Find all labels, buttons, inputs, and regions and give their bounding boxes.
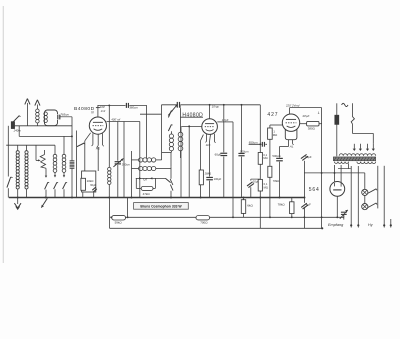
svg-text:60μF: 60μF	[90, 183, 96, 187]
svg-text:40ʹμF: 40ʹμF	[302, 114, 309, 118]
svg-text:765cm: 765cm	[60, 113, 69, 117]
svg-text:10ʹμF: 10ʹμF	[222, 118, 229, 122]
svg-text:10kΩ: 10kΩ	[87, 179, 95, 183]
svg-text:MΩ: MΩ	[264, 185, 268, 189]
svg-text:220ʹ 2Vmd: 220ʹ 2Vmd	[285, 103, 300, 107]
svg-text:AL: AL	[289, 144, 294, 148]
svg-text:Rг: Rг	[96, 146, 100, 150]
svg-text:350cm: 350cm	[122, 162, 131, 166]
svg-text:100ʹ: 100ʹ	[100, 105, 105, 109]
svg-text:L: L	[318, 111, 320, 115]
svg-text:50μF: 50μF	[305, 155, 312, 159]
svg-text:78kΩ: 78kΩ	[278, 203, 286, 207]
svg-text:0,1: 0,1	[263, 153, 267, 157]
svg-text:650cm: 650cm	[249, 140, 258, 144]
svg-text:100cm: 100cm	[240, 150, 249, 154]
svg-text:Bruns Cosmophon 333 W: Bruns Cosmophon 333 W	[140, 204, 182, 208]
svg-text:400ʹ mf: 400ʹ mf	[111, 117, 120, 121]
svg-text:H4080D: H4080D	[182, 112, 203, 118]
svg-text:380cm: 380cm	[129, 105, 138, 109]
svg-text:240m: 240m	[13, 128, 22, 132]
svg-text:700Ω: 700Ω	[200, 221, 208, 225]
svg-text:6kΩ: 6kΩ	[247, 204, 253, 208]
svg-text:427: 427	[267, 112, 278, 118]
svg-text:59kΩ: 59kΩ	[115, 221, 123, 225]
svg-text:.5MΩ: .5MΩ	[204, 172, 212, 176]
svg-text:47kΩ: 47kΩ	[143, 192, 151, 196]
svg-text:10⁵μμ: 10⁵μμ	[212, 104, 220, 108]
svg-text:Empfang: Empfang	[328, 223, 344, 227]
svg-text:MΩ: MΩ	[263, 156, 267, 160]
svg-text:78kΩ: 78kΩ	[273, 179, 280, 183]
svg-text:2mf: 2mf	[100, 109, 106, 113]
svg-text:500cm: 500cm	[272, 154, 281, 158]
svg-text:564: 564	[309, 187, 320, 193]
svg-text:100μF: 100μF	[214, 177, 222, 181]
svg-text:4μF: 4μF	[306, 203, 311, 207]
svg-text:380Ω: 380Ω	[308, 126, 316, 130]
svg-text:MΩ: MΩ	[273, 133, 277, 137]
svg-text:0,1: 0,1	[264, 182, 268, 186]
svg-text:60μF: 60μF	[215, 153, 222, 157]
